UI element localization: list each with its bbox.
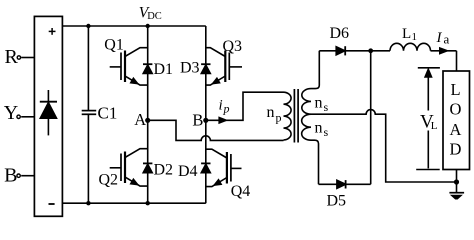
svg-text:D2: D2: [154, 162, 174, 179]
svg-text:p: p: [276, 111, 282, 125]
svg-text:A: A: [134, 110, 146, 129]
svg-text:Y: Y: [4, 102, 18, 124]
svg-text:A: A: [450, 120, 462, 139]
svg-text:D6: D6: [330, 25, 350, 42]
svg-text:n: n: [315, 120, 323, 137]
svg-text:a: a: [444, 32, 450, 47]
svg-text:B: B: [4, 164, 17, 186]
svg-text:p: p: [223, 102, 230, 116]
svg-text:D: D: [450, 139, 462, 158]
svg-text:n: n: [315, 95, 323, 112]
svg-text:Q3: Q3: [223, 38, 243, 55]
svg-text:D3: D3: [180, 60, 200, 77]
svg-text:s: s: [324, 125, 329, 139]
svg-text:D5: D5: [327, 193, 347, 210]
svg-text:s: s: [324, 100, 329, 114]
svg-text:Q2: Q2: [99, 172, 119, 189]
svg-text:i: i: [219, 98, 223, 114]
svg-text:C1: C1: [98, 104, 118, 123]
svg-text:L: L: [450, 80, 460, 99]
svg-text:L: L: [402, 26, 411, 42]
svg-text:1: 1: [412, 31, 418, 43]
svg-text:I: I: [436, 30, 443, 46]
svg-text:O: O: [450, 100, 462, 119]
svg-text:Q4: Q4: [231, 183, 251, 200]
svg-text:R: R: [5, 46, 19, 68]
svg-text:n: n: [267, 104, 275, 121]
svg-text:Q1: Q1: [104, 36, 124, 53]
svg-text:B: B: [192, 111, 203, 130]
svg-text:DC: DC: [147, 11, 162, 22]
svg-text:D4: D4: [178, 163, 198, 180]
svg-text:L: L: [431, 120, 438, 132]
svg-text:D1: D1: [154, 61, 174, 78]
